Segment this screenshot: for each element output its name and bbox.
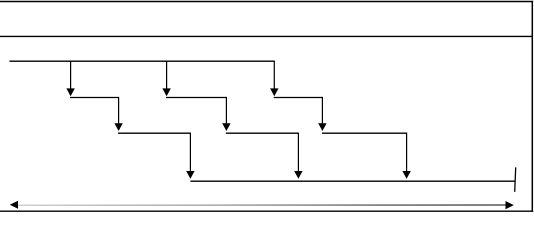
frame right border — [531, 1, 533, 212]
drop A1 vertical — [70, 61, 72, 89]
bottom span left arrowhead — [10, 201, 18, 209]
drop C1 vertical (corner from row 1 end) — [273, 61, 275, 90]
drop A2 vertical — [118, 97, 120, 124]
drop A2 arrowhead — [114, 123, 122, 131]
drop C2 arrowhead — [318, 123, 326, 131]
drop B1 vertical — [166, 61, 168, 89]
drop B2 vertical — [225, 97, 227, 124]
header divider line — [0, 35, 532, 37]
row 1 line — [9, 60, 274, 62]
row 4 line — [190, 180, 514, 182]
drop B3 vertical — [297, 133, 299, 172]
drop B1 arrowhead — [162, 88, 170, 96]
drop C3 vertical — [406, 133, 408, 172]
row 2 segment B — [166, 97, 226, 99]
drop C1 arrowhead — [270, 88, 278, 96]
drop B3 arrowhead — [294, 171, 302, 179]
drop B2 arrowhead — [222, 123, 230, 131]
drop A3 vertical — [189, 133, 191, 172]
bottom span shaft — [14, 204, 507, 206]
drop A3 arrowhead — [186, 171, 194, 179]
row 3 segment A — [118, 132, 190, 134]
frame top border — [0, 1, 533, 3]
bottom span right arrowhead — [506, 201, 514, 209]
row 2 segment A — [70, 97, 119, 99]
row 3 segment B — [226, 132, 299, 134]
drop A1 arrowhead — [66, 88, 74, 96]
row 2 segment C — [274, 97, 323, 99]
row 4 end tick — [515, 167, 516, 191]
row 3 segment C — [322, 132, 407, 134]
frame bottom border — [0, 210, 533, 212]
drop C2 vertical — [321, 97, 323, 124]
drop C3 arrowhead — [402, 171, 410, 179]
